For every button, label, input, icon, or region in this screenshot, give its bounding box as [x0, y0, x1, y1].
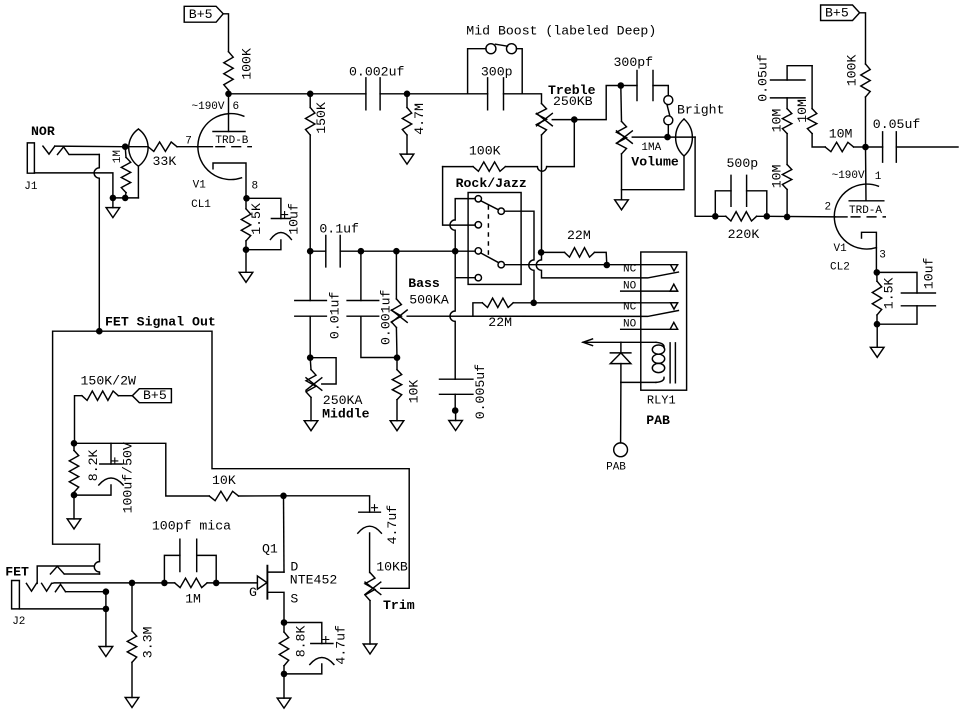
svg-text:10K: 10K [212, 473, 236, 488]
capacitor 10uf (CL2 cathode) [874, 257, 937, 327]
feedback network: capacitor 0.05uf [756, 54, 813, 102]
capacitor 100pf mica [152, 519, 231, 583]
node 22M2/C1 [530, 300, 537, 307]
capacitor 0.002uf [310, 64, 407, 110]
node: J1 tip / 1M [122, 143, 129, 150]
resistor 8.8K [279, 623, 308, 674]
ground (Trim) [363, 644, 377, 654]
wire grid run to CL2 [767, 215, 835, 218]
wire C2 to relay NC1 [504, 264, 677, 266]
node CL2 plate [862, 144, 869, 151]
ground (8.8K) [277, 674, 291, 708]
svg-text:3: 3 [879, 249, 886, 261]
potentiometer Trim 10KB [365, 559, 415, 644]
flyback diode D1 [610, 342, 631, 382]
svg-text:22M: 22M [567, 228, 591, 243]
svg-text:33K: 33K [153, 154, 177, 169]
svg-text:0.001uf: 0.001uf [379, 290, 394, 345]
potentiometer Volume 1MA [617, 86, 685, 190]
shielded cable symbol (volume out) [676, 119, 693, 156]
svg-text:B+5: B+5 [825, 6, 849, 21]
svg-text:0.05uf: 0.05uf [873, 117, 921, 132]
switch: Mid Boost (labeled Deep) [407, 23, 656, 93]
resistor 22M (lower) [473, 298, 534, 330]
resistor 150K/2W [75, 374, 136, 444]
ground (8.2K) [67, 495, 81, 529]
svg-text:4.7uf: 4.7uf [385, 505, 400, 545]
connector PAB [606, 382, 670, 473]
capacitor 0.005uf [440, 364, 489, 419]
node Bass top [393, 248, 400, 255]
svg-text:NC: NC [623, 263, 637, 275]
svg-text:500p: 500p [727, 156, 759, 171]
ground (Volume) [615, 190, 629, 210]
node 0.001uf top [358, 248, 365, 255]
svg-text:NTE452: NTE452 [290, 573, 337, 588]
svg-text:22M: 22M [488, 315, 512, 330]
cathode network CL1: node pin8 [243, 195, 250, 202]
resistor 100K (CL1 plate load) [224, 48, 255, 90]
resistor 220K [715, 212, 767, 242]
svg-text:4.7M: 4.7M [412, 103, 427, 135]
svg-text:~190V: ~190V [832, 170, 865, 182]
svg-text:NO: NO [623, 281, 637, 293]
svg-text:500KA: 500KA [409, 293, 449, 308]
node P1/P4 junction [452, 248, 459, 255]
node treble-bottom on main wire [538, 249, 545, 256]
svg-text:300p: 300p [481, 64, 513, 79]
capacitor 0.001uf [347, 251, 397, 357]
node: 4.7M top [404, 91, 411, 98]
resistor 4.7M [402, 94, 427, 154]
main tone wire [310, 250, 475, 252]
wire B+5 to R 100K top [223, 14, 228, 52]
wire B+5 to 100K [860, 13, 866, 64]
capacitor 4.7uf (source bypass) [281, 623, 349, 678]
wire NC2 line [534, 302, 678, 304]
node 10M chain/grid [784, 214, 791, 221]
potentiometer Treble 250KB [537, 83, 596, 253]
svg-text:Trim: Trim [383, 598, 415, 613]
svg-text:Rock/Jazz: Rock/Jazz [456, 176, 527, 191]
svg-text:B+5: B+5 [189, 7, 213, 22]
resistor 10K (FET drain) [209, 473, 283, 501]
svg-text:10M: 10M [770, 109, 785, 133]
power tag B+5 (left) [184, 6, 223, 22]
resistor 10M (upper left vertical) [770, 98, 792, 134]
input jack J2 (FET) [5, 564, 106, 628]
resistor 1.5K (CL1 cathode) [241, 198, 264, 249]
svg-text:1: 1 [875, 171, 882, 183]
wire volume wiper [632, 134, 695, 141]
triode U V1 CL2 (TRD-A) [825, 147, 887, 273]
svg-text:7: 7 [185, 136, 192, 148]
svg-text:8.8K: 8.8K [294, 626, 309, 658]
input jack J1 (NOR) [24, 124, 148, 331]
svg-text:10uf: 10uf [287, 203, 302, 235]
switch Rock/Jazz (DPDT) [456, 176, 527, 285]
resistor 1M (FET gate) [161, 578, 219, 606]
capacitor 0.01uf [295, 251, 343, 358]
svg-text:2: 2 [825, 201, 832, 213]
svg-text:100K: 100K [469, 143, 501, 158]
potentiometer Middle 250KA [306, 358, 370, 422]
shielded cable symbol (NOR) [129, 129, 148, 198]
wire: plate node to tone network [229, 93, 311, 95]
svg-text:~190V: ~190V [192, 101, 225, 113]
capacitor 300pf + Bright switch [614, 55, 725, 137]
svg-text:FET Signal Out: FET Signal Out [105, 314, 216, 329]
relay RLY1 contacts [621, 252, 687, 408]
resistor 1M (NOR grid leak) [112, 147, 131, 198]
svg-text:S: S [290, 592, 298, 607]
ground (J1 sleeve) [106, 198, 120, 218]
svg-text:V1: V1 [834, 243, 848, 255]
svg-text:PAB: PAB [606, 462, 626, 474]
svg-text:1M: 1M [112, 150, 124, 163]
svg-text:0.005uf: 0.005uf [473, 364, 488, 419]
svg-text:3.3M: 3.3M [141, 626, 156, 658]
svg-text:1MA: 1MA [641, 142, 661, 154]
svg-text:10KB: 10KB [376, 559, 408, 574]
svg-text:100K: 100K [845, 55, 860, 87]
svg-text:Mid Boost (labeled Deep): Mid Boost (labeled Deep) [466, 23, 656, 38]
ground (J2) [99, 647, 113, 657]
capacitor 0.1uf [319, 222, 359, 267]
svg-text:1.5K: 1.5K [882, 277, 897, 309]
svg-text:B+5: B+5 [143, 388, 167, 403]
svg-text:10M: 10M [795, 99, 810, 123]
svg-text:J1: J1 [24, 181, 38, 193]
svg-text:NO: NO [623, 319, 637, 331]
resistor 100K (CL2 plate load) [845, 55, 871, 147]
resistor 100K (treble slope) [443, 143, 547, 171]
node 3.3M [129, 580, 136, 587]
node 22M/NC1 [604, 262, 611, 269]
ground (10K) [390, 421, 404, 431]
svg-text:RLY1: RLY1 [647, 394, 676, 408]
svg-text:150K/2W: 150K/2W [81, 374, 136, 389]
svg-text:10M: 10M [770, 164, 785, 188]
node 0.01/Middle [307, 354, 314, 361]
wire C1 down to 22M node (hop) [504, 211, 534, 303]
svg-text:4.7uf: 4.7uf [334, 625, 349, 665]
wire R100K to plate node [228, 90, 230, 94]
node CL2 cathode [874, 269, 881, 276]
triode U V1 CL1 (TRD-B) [185, 94, 258, 211]
wire: treble wiper to volume [547, 86, 621, 167]
svg-text:10M: 10M [829, 126, 853, 141]
svg-text:10K: 10K [407, 380, 422, 404]
ground (4.7M) [400, 154, 414, 164]
node 300pf/volume top [618, 82, 625, 89]
potentiometer Bass 500KA [391, 251, 448, 358]
svg-text:V1: V1 [193, 180, 207, 192]
resistor 33K (grid stopper) [148, 142, 197, 169]
arrow to PAB line [583, 339, 621, 346]
ground (CL1 cathode) [239, 250, 253, 283]
ground (0.005uf) [449, 411, 463, 431]
svg-text:100uf/50V: 100uf/50V [121, 442, 136, 513]
J2 ground chain [103, 588, 110, 646]
relay coil [621, 342, 676, 383]
wire treble bottom to arm1 (hop) [536, 252, 678, 278]
svg-text:Q1: Q1 [262, 541, 278, 556]
ground (3.3M) [125, 698, 139, 708]
svg-text:Bass: Bass [408, 276, 440, 291]
svg-text:CL2: CL2 [830, 261, 850, 273]
svg-text:8: 8 [252, 181, 259, 193]
node drain [280, 493, 287, 573]
svg-text:FET: FET [5, 564, 29, 579]
svg-text:J2: J2 [12, 616, 25, 628]
svg-text:Volume: Volume [631, 155, 679, 170]
svg-text:10uf: 10uf [922, 257, 937, 289]
capacitor 300p (mid boost) [468, 64, 523, 110]
svg-text:8.2K: 8.2K [86, 449, 101, 481]
resistor 3.3M [127, 583, 155, 698]
ground (Middle) [304, 421, 318, 431]
ground run under J1 [110, 195, 139, 202]
resistor 10M (right vertical) [795, 66, 825, 147]
svg-text:1.5K: 1.5K [249, 203, 264, 235]
wire FET Signal Out [53, 314, 410, 588]
svg-text:PAB: PAB [646, 413, 670, 428]
svg-text:1M: 1M [185, 592, 201, 607]
resistor 8.2K [69, 443, 101, 495]
svg-text:TRD-B: TRD-B [215, 135, 248, 147]
wire P1 loop (hop over P2 wire) [450, 199, 475, 252]
resistor 10K (tone) [392, 358, 421, 421]
svg-text:Middle: Middle [322, 406, 370, 421]
svg-text:150K: 150K [314, 102, 329, 134]
capacitor 10uf (CL1 cathode bypass) [243, 198, 302, 253]
power tag B+5 (right) [821, 5, 860, 21]
svg-text:220K: 220K [728, 227, 760, 242]
resistor 10M (lower left vertical) [770, 134, 792, 217]
node bass bottom/10K [394, 354, 401, 361]
node: 150K top [307, 91, 314, 98]
capacitor 100uf/50V [71, 442, 136, 513]
resistor 1.5K (CL2 cathode) [872, 272, 896, 324]
svg-text:NC: NC [623, 301, 637, 313]
resistor 22M (upper) [541, 228, 607, 265]
svg-text:0.1uf: 0.1uf [319, 222, 359, 237]
svg-text:G: G [249, 585, 257, 600]
svg-text:0.002uf: 0.002uf [349, 64, 404, 79]
wire to Treble [522, 94, 541, 104]
svg-text:NOR: NOR [31, 124, 55, 139]
node source [281, 619, 288, 626]
node 8.2K top [71, 440, 210, 496]
ground (CL2 cathode) [870, 324, 884, 357]
transistor Q1 NTE452 (JFET) [249, 541, 337, 622]
svg-text:100pf mica: 100pf mica [152, 519, 231, 534]
node 220K left [712, 213, 719, 220]
capacitor 4.7uf (to trim) [284, 496, 401, 573]
svg-text:Bright: Bright [677, 103, 724, 118]
capacitor 0.05uf (output) [866, 117, 959, 162]
capacitor 500p [715, 156, 767, 216]
svg-text:100K: 100K [240, 48, 255, 80]
node 150K bottom / 0.1uf [307, 248, 314, 255]
svg-text:TRD-A: TRD-A [849, 205, 882, 217]
node 220K right [764, 213, 771, 220]
resistor 10M (horizontal) [825, 126, 865, 151]
svg-text:250KB: 250KB [553, 94, 593, 109]
power tag B+5 (FET) [132, 388, 171, 403]
node: CL1 plate (~190V, pin 6) [192, 91, 240, 114]
svg-text:0.01uf: 0.01uf [328, 292, 343, 340]
wire bass wiper to relay arm2 (with hop) [407, 311, 678, 317]
resistor 150K [306, 94, 330, 251]
svg-text:0.05uf: 0.05uf [756, 54, 771, 102]
wire P4 to 0.005uf (hop over bass wiper) [450, 251, 475, 379]
svg-text:300pf: 300pf [614, 55, 654, 70]
wire 100K left to switch P2 [443, 167, 476, 226]
wire to 220K [695, 137, 715, 216]
svg-text:6: 6 [233, 101, 240, 113]
wire gate line [52, 582, 258, 585]
svg-text:CL1: CL1 [191, 199, 211, 211]
